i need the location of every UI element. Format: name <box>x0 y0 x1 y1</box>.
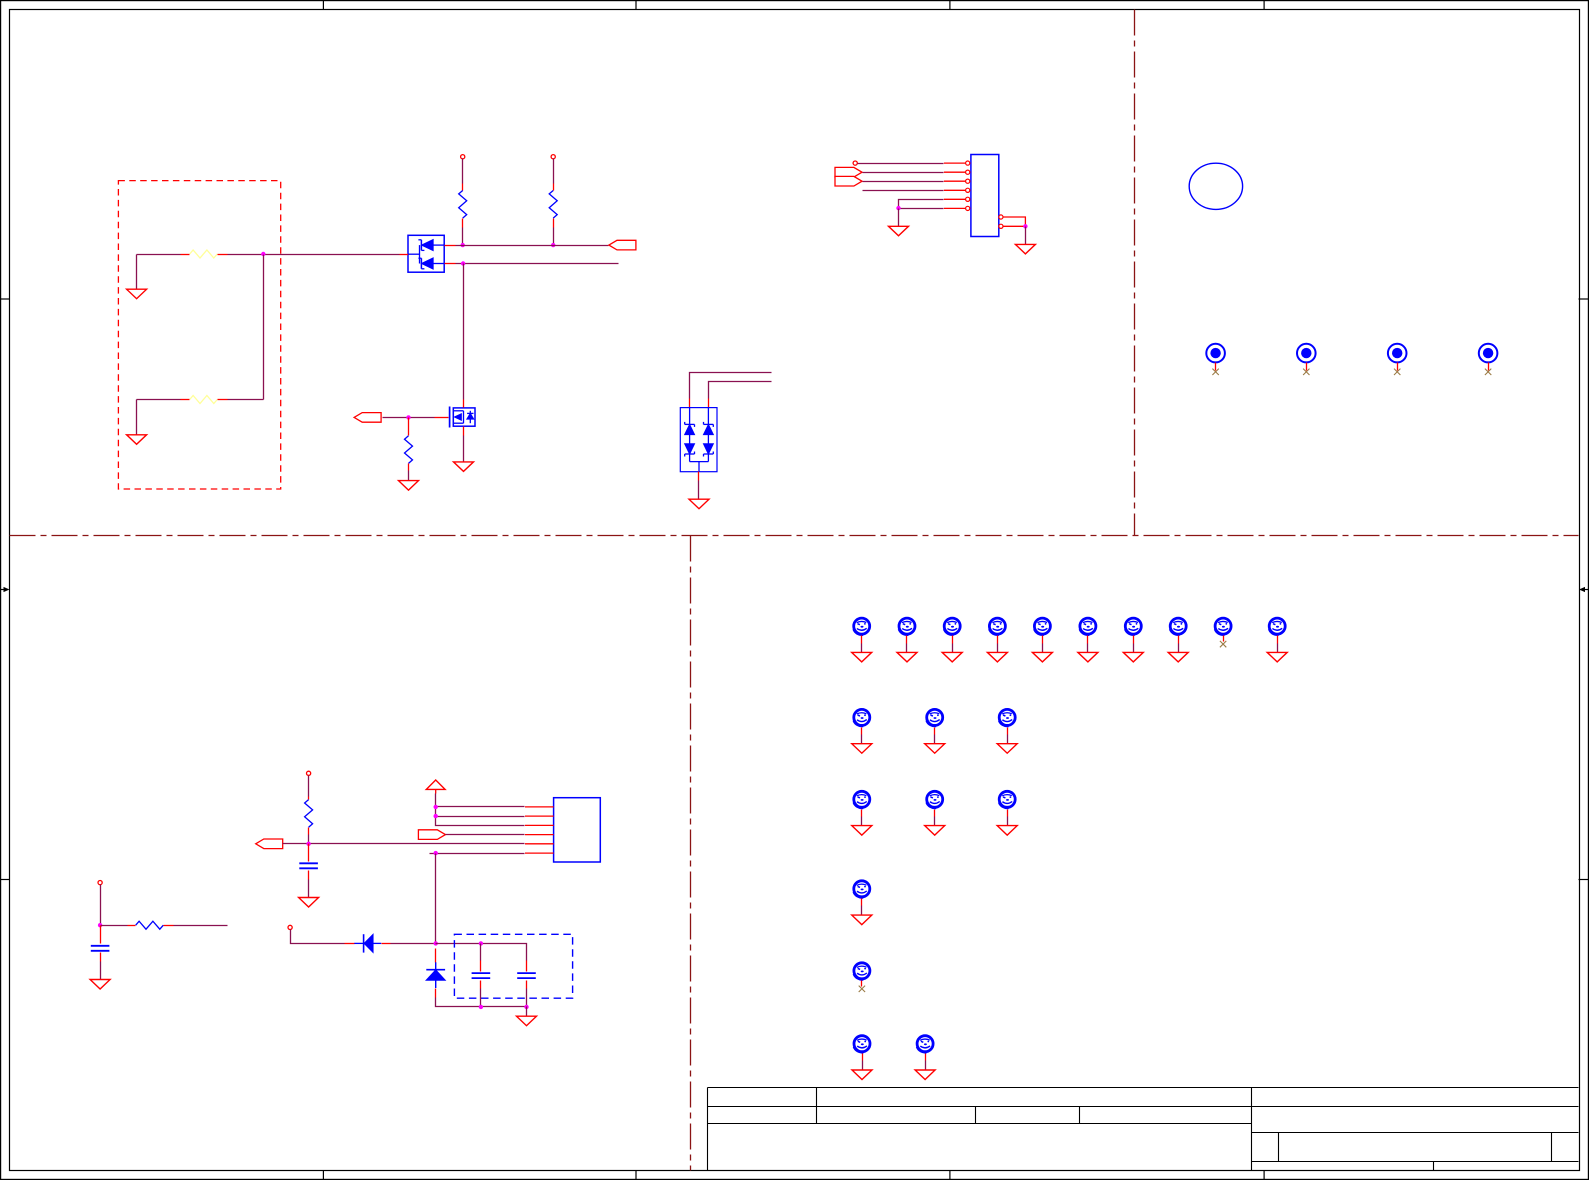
capacitor C4 <box>91 926 110 962</box>
wire <box>408 471 410 481</box>
terminal pin R1 <box>461 155 465 159</box>
logo hole H8 <box>1170 618 1187 643</box>
title block <box>708 1088 1579 1171</box>
wire <box>1087 644 1089 653</box>
wire <box>553 228 555 246</box>
ground <box>852 915 872 925</box>
node junction <box>461 261 465 265</box>
diode D1 <box>345 934 391 952</box>
mounting hole MH3 <box>1388 344 1407 371</box>
wire <box>863 172 944 174</box>
node junction <box>461 243 465 247</box>
logo hole H9 <box>1215 618 1232 641</box>
ground <box>689 499 709 509</box>
logo hole H5 <box>1034 618 1051 643</box>
ground <box>997 826 1017 836</box>
resistor R3 <box>405 418 413 471</box>
wire <box>1025 227 1027 245</box>
ground <box>299 898 319 908</box>
resistor R5 <box>128 921 174 929</box>
wire <box>228 254 400 256</box>
wire <box>709 382 772 399</box>
capacitor dashed box <box>454 934 572 998</box>
wire <box>526 1007 528 1017</box>
wire <box>100 962 102 980</box>
wire <box>136 255 138 290</box>
frame zone ticks left <box>0 299 10 880</box>
dual diode D3 <box>400 235 456 272</box>
no-connect cross <box>1394 369 1400 375</box>
wire <box>906 644 908 653</box>
node junction <box>524 1005 528 1009</box>
port P4 <box>418 830 445 840</box>
ground <box>987 652 1007 662</box>
node junction <box>479 1005 483 1009</box>
ground <box>897 652 917 662</box>
mounting hole MH4 <box>1479 344 1498 371</box>
wire <box>136 400 138 435</box>
node junction <box>551 243 555 247</box>
ground <box>517 1016 537 1025</box>
logo hole H19 <box>853 1036 870 1061</box>
node junction <box>434 851 438 855</box>
ground <box>852 652 872 662</box>
no-connect cross <box>1212 369 1218 375</box>
node junction <box>479 941 483 945</box>
port P5 <box>835 167 862 177</box>
connector J2 <box>525 798 600 862</box>
port P1 <box>609 240 636 250</box>
logo hole H6 <box>1079 618 1096 643</box>
wire <box>925 1061 927 1071</box>
port P6 <box>835 176 862 186</box>
no-connect cross <box>1220 641 1226 647</box>
node junction <box>261 252 265 256</box>
wire <box>436 998 527 1007</box>
node junction <box>434 941 438 945</box>
ground <box>942 652 962 662</box>
logo hole H18 <box>853 963 870 987</box>
power flag VCC <box>426 780 445 794</box>
logo hole H12 <box>926 709 943 734</box>
wire <box>862 1061 864 1071</box>
wire <box>430 853 525 855</box>
ground <box>915 1070 935 1080</box>
frame zone ticks right <box>1579 299 1589 880</box>
node junction <box>1023 224 1027 228</box>
logo hole H1 <box>853 618 870 643</box>
zener diode D5 <box>426 949 445 998</box>
ground <box>454 462 474 472</box>
logo hole H11 <box>853 709 870 734</box>
wire <box>291 930 345 944</box>
capacitor C3 <box>517 961 536 1007</box>
node junction <box>434 814 438 818</box>
wire <box>861 817 863 826</box>
wire <box>690 373 772 399</box>
logo hole H16 <box>999 791 1016 816</box>
resistor R4 <box>305 797 313 835</box>
logo hole H2 <box>898 618 915 643</box>
logo hole H4 <box>989 618 1006 643</box>
wire <box>1133 644 1135 653</box>
wire <box>553 159 555 184</box>
wire <box>1042 644 1044 653</box>
logo hole H13 <box>999 709 1016 734</box>
TVS diode array D4 <box>680 399 717 481</box>
logo hole H10 <box>1269 618 1286 643</box>
zone division line horizontal <box>10 535 1579 537</box>
wire <box>436 816 525 818</box>
wire <box>391 943 436 945</box>
ground <box>1168 652 1188 662</box>
wire <box>462 228 464 246</box>
terminal pin <box>853 161 857 165</box>
wire <box>698 481 700 500</box>
port P3 <box>256 839 283 849</box>
ground <box>997 744 1017 754</box>
connector J1 <box>944 155 1003 237</box>
wire <box>863 190 944 192</box>
wire <box>101 925 128 927</box>
ground <box>399 481 419 491</box>
wire pin5 net <box>283 843 525 845</box>
frame zone ticks top <box>323 0 1264 10</box>
ground <box>852 744 872 754</box>
fuse F2 <box>181 396 228 404</box>
wire net B <box>456 263 619 265</box>
frame centre arrow left <box>0 587 10 592</box>
wire <box>446 834 525 836</box>
wire <box>861 644 863 653</box>
wire <box>934 735 936 744</box>
logo hole H7 <box>1125 618 1142 643</box>
port P2 <box>354 413 381 423</box>
node junction <box>406 415 410 419</box>
wire <box>858 163 944 165</box>
ground <box>852 1070 872 1080</box>
terminal pin R2 <box>551 155 555 159</box>
logo ellipse <box>1189 163 1242 209</box>
wire <box>861 735 863 744</box>
logo hole H3 <box>944 618 961 643</box>
resistor R1 <box>459 184 467 228</box>
frame centre arrow right <box>1579 587 1589 592</box>
mounting hole MH1 <box>1206 344 1225 371</box>
zone division line vertical left-bottom <box>690 536 692 1171</box>
wire <box>899 208 944 210</box>
node junction <box>896 206 900 210</box>
no-connect cross <box>1303 369 1309 375</box>
logo hole H17 <box>853 881 870 906</box>
wire <box>1277 644 1279 653</box>
wire <box>436 806 525 808</box>
no-connect cross <box>859 986 865 992</box>
wire <box>463 264 465 400</box>
isolation dashed box <box>118 181 280 489</box>
wire <box>308 776 310 797</box>
terminal pin <box>98 881 102 885</box>
ground <box>127 289 147 299</box>
ground <box>1032 652 1052 662</box>
ground <box>127 435 147 445</box>
wire <box>308 835 310 844</box>
wire <box>137 254 181 256</box>
wire <box>952 644 954 653</box>
ground <box>90 980 110 990</box>
logo hole H15 <box>926 791 943 816</box>
wire <box>463 436 465 462</box>
node junction <box>306 842 310 846</box>
wire <box>997 644 999 653</box>
node junction <box>434 805 438 809</box>
wire <box>863 181 944 183</box>
wire <box>934 817 936 826</box>
fuse F1 <box>181 250 228 258</box>
ground <box>925 744 945 754</box>
logo hole H14 <box>853 791 870 816</box>
wire <box>1007 735 1009 744</box>
wire net A <box>456 245 609 247</box>
terminal pin <box>307 771 311 775</box>
terminal pin <box>288 925 292 929</box>
transistor Q1 <box>435 400 476 436</box>
wire <box>435 854 437 944</box>
resistor R2 <box>549 184 557 228</box>
logo hole H20 <box>917 1036 934 1061</box>
zone division line vertical right-top <box>1134 10 1136 536</box>
ground <box>1078 652 1098 662</box>
wire <box>1003 217 1025 226</box>
wire <box>308 880 310 898</box>
ground <box>1267 652 1287 662</box>
ground <box>925 826 945 836</box>
wire <box>1007 817 1009 826</box>
wire <box>100 885 102 926</box>
wire <box>1178 644 1180 653</box>
capacitor C2 <box>472 944 491 1007</box>
wire <box>861 906 863 916</box>
frame zone ticks bottom <box>323 1171 1264 1180</box>
wire <box>263 255 265 400</box>
wire <box>228 399 264 401</box>
wire <box>898 209 900 227</box>
wire <box>137 399 181 401</box>
capacitor C5 <box>299 844 318 880</box>
ground <box>889 226 909 236</box>
wire <box>899 200 944 208</box>
wire <box>174 925 228 927</box>
ground <box>1015 244 1035 254</box>
wire <box>383 417 435 419</box>
wire <box>462 159 464 184</box>
no-connect cross <box>1485 369 1491 375</box>
node junction <box>98 923 102 927</box>
wire <box>436 794 525 826</box>
ground <box>852 826 872 836</box>
mounting hole MH2 <box>1297 344 1316 371</box>
ground <box>1123 652 1143 662</box>
wire <box>436 944 527 961</box>
